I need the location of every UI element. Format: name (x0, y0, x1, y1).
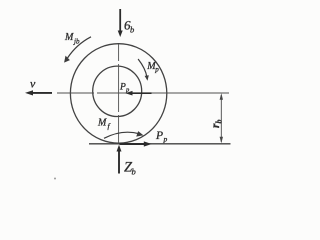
svg-text:M: M (97, 118, 107, 129)
svg-text:M: M (64, 32, 74, 43)
svg-text:b: b (215, 120, 224, 124)
svg-text:p: p (163, 135, 168, 144)
svg-text:P: P (119, 83, 126, 93)
svg-text:b: b (130, 25, 134, 35)
traction force P_p at contact arrow (120, 141, 152, 146)
velocity v arrow (25, 90, 52, 95)
svg-text:jb: jb (73, 38, 80, 46)
vertical centerline (118, 44, 120, 61)
svg-text:p: p (154, 66, 159, 74)
moment M_f arc (104, 131, 143, 138)
force G_b arrow (118, 9, 123, 37)
svg-text:v: v (30, 77, 36, 91)
horizontal centerline (57, 92, 94, 94)
speck mark bottom-left (54, 178, 56, 180)
dimension r_b line with arrowheads (220, 93, 223, 143)
wheel outer circle (70, 44, 166, 143)
moment M_jb arc (64, 37, 91, 63)
svg-text:f: f (108, 122, 111, 131)
force P_p at hub arrow (125, 91, 151, 96)
reaction Z_b arrow (117, 145, 122, 174)
svg-text:b: b (132, 167, 136, 177)
ground line (89, 143, 231, 145)
moment M_p arc (138, 59, 149, 81)
svg-text:P: P (155, 130, 163, 142)
wheel inner circle (hub) (93, 66, 142, 116)
label r_b (rotated) (210, 120, 224, 129)
